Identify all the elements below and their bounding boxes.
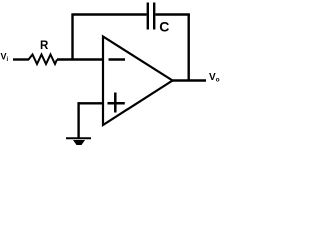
capacitor C bbox=[148, 3, 154, 30]
wire resistor to op-amp inverting input bbox=[57, 58, 103, 60]
op-amp non-inverting input plus sign bbox=[108, 93, 125, 113]
wire input Vi to resistor bbox=[13, 58, 29, 60]
ground bbox=[66, 138, 91, 145]
op-amp inverting input minus sign bbox=[109, 58, 126, 61]
svg-text:R: R bbox=[40, 40, 49, 52]
svg-text:Vi: Vi bbox=[1, 51, 9, 63]
resistor R bbox=[29, 55, 58, 65]
wire non-inverting input horizontal bbox=[78, 102, 104, 104]
wire feedback top horizontal to capacitor bbox=[72, 13, 147, 15]
wire output from op-amp apex bbox=[172, 79, 206, 81]
op-amp U1 triangle bbox=[103, 37, 173, 126]
wire capacitor to right feedback corner bbox=[156, 13, 190, 15]
svg-text:C: C bbox=[159, 19, 169, 35]
svg-text:Vo: Vo bbox=[209, 72, 220, 84]
wire feedback left vertical bbox=[71, 14, 73, 61]
wire non-inverting input vertical to ground bbox=[77, 102, 79, 138]
wire feedback right vertical to output node bbox=[187, 14, 189, 82]
